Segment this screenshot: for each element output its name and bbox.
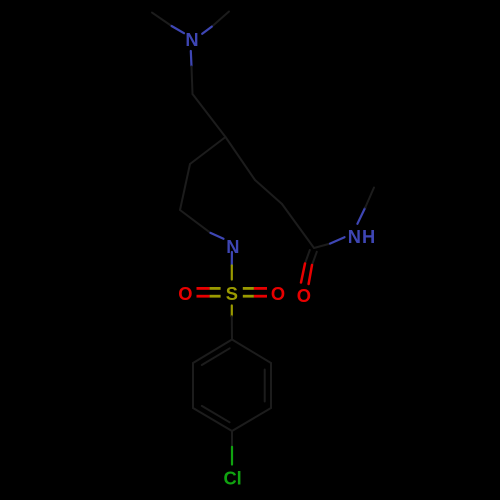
wire V-Cco <box>282 204 314 248</box>
wire Cb-Cc <box>226 137 256 180</box>
wire N-Ca blue half <box>190 51 193 67</box>
wire ring C1-C2 <box>193 340 232 364</box>
wire Cc-V <box>255 180 282 204</box>
svg-text:O: O <box>297 285 311 306</box>
svg-text:S: S <box>226 283 238 304</box>
svg-text:N: N <box>226 236 239 257</box>
wire C=O lineA red half <box>301 264 305 283</box>
svg-text:Cl: Cl <box>223 468 241 489</box>
wire Cd-N dark half <box>180 210 211 233</box>
wire Cco-NH dark half <box>314 244 330 248</box>
wire C=O lineB red half <box>309 265 312 284</box>
wire ring C6-C1 <box>232 340 271 364</box>
wire C4-Cl green half <box>231 447 233 465</box>
wire S=O right line2 olive <box>243 295 254 298</box>
wire N-S blue half <box>231 252 233 266</box>
wire ring C4-C5 <box>232 408 271 431</box>
wire NH-CH3 dark half <box>365 188 374 208</box>
wire Ca-Cb <box>193 94 226 137</box>
wire S=O right line2 red <box>254 295 267 298</box>
wire ring C2-C3 <box>192 363 194 408</box>
wire ring C5-C6 <box>270 363 272 408</box>
wire S=O left line1 olive <box>210 287 221 290</box>
wire N-S olive half <box>231 266 233 280</box>
wire C4-Cl dark half <box>231 431 233 447</box>
svg-text:N: N <box>185 29 198 50</box>
wire S-C1 olive half <box>231 306 233 317</box>
wire N-CH3b blue half <box>202 27 212 34</box>
wire Cb-Ce <box>190 137 226 164</box>
wire Cd-N blue half <box>211 233 224 239</box>
wire S=O right line1 red <box>254 287 267 290</box>
wire methyl CH3a dark half <box>152 13 172 26</box>
wire S=O right line1 olive <box>243 287 254 290</box>
svg-text:NH: NH <box>348 226 376 247</box>
svg-text:O: O <box>271 283 285 304</box>
wire N-Ca dark half <box>192 67 193 95</box>
svg-text:O: O <box>178 283 192 304</box>
wire S-C1 dark half <box>231 316 233 339</box>
wire NH-CH3 blue half <box>357 208 365 224</box>
wire N-CH3a blue half <box>172 26 184 33</box>
wire ring C3-C4 <box>193 408 232 431</box>
wire ring double C1=C2 inner <box>202 348 230 365</box>
wire Ce-Cd <box>180 164 190 210</box>
wire ring double C5=C6 inner <box>264 370 266 402</box>
wire S=O left line2 olive <box>210 295 221 298</box>
wire C=O lineA dark half <box>305 250 310 264</box>
wire S=O left line2 red <box>197 295 210 298</box>
wire Cco-NH blue half <box>330 237 345 243</box>
wire C=O lineB dark half <box>312 252 317 265</box>
wire ring double C3=C4 inner <box>202 406 230 422</box>
wire S=O left line1 red <box>197 287 210 290</box>
wire methyl CH3b dark half <box>212 12 229 27</box>
